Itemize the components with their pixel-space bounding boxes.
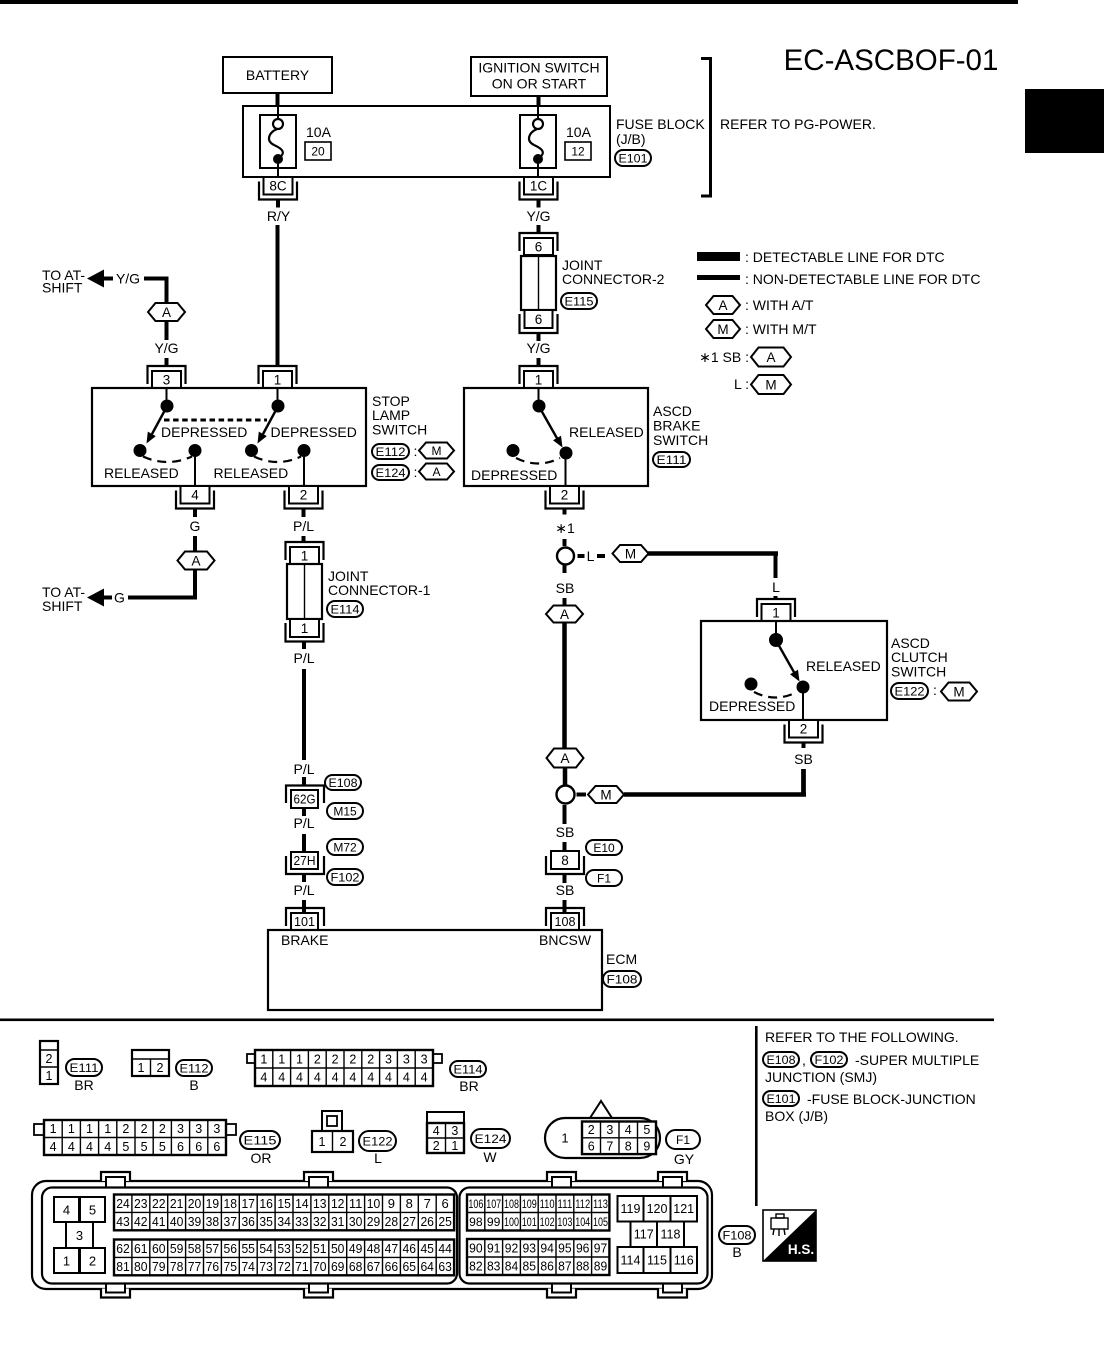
connector ref M72 xyxy=(327,839,363,855)
svg-text:A: A xyxy=(560,607,569,622)
svg-text:116: 116 xyxy=(674,1254,694,1268)
svg-text:108: 108 xyxy=(504,1197,519,1211)
hexagon M (with M/T) xyxy=(613,545,649,562)
ecm connector bottom tab 3 xyxy=(547,1284,576,1298)
svg-text:4: 4 xyxy=(68,1140,75,1154)
svg-text:90: 90 xyxy=(469,1241,483,1256)
connector E115 pinout xyxy=(34,1120,236,1155)
svg-text:3: 3 xyxy=(163,372,171,387)
connector ref E108 note xyxy=(763,1052,806,1068)
legend *1 SB xyxy=(699,348,791,367)
svg-text:2: 2 xyxy=(157,1061,164,1075)
svg-text:M: M xyxy=(717,322,728,337)
connector ref F108 xyxy=(603,971,641,987)
svg-text:BATTERY: BATTERY xyxy=(246,67,310,83)
svg-text:2: 2 xyxy=(46,1052,53,1066)
svg-text:22: 22 xyxy=(152,1196,166,1211)
svg-text:105: 105 xyxy=(593,1215,608,1229)
svg-text:E112: E112 xyxy=(180,1061,209,1075)
svg-text:P/L: P/L xyxy=(293,815,314,831)
svg-text:SHIFT: SHIFT xyxy=(42,280,83,296)
svg-text:30: 30 xyxy=(349,1214,363,1229)
svg-text:4: 4 xyxy=(403,1071,410,1085)
svg-text:4: 4 xyxy=(260,1071,267,1085)
wire ignition to fuse block xyxy=(537,96,541,106)
svg-text::: : xyxy=(414,443,418,459)
connector ref E124 xyxy=(471,1129,510,1148)
wire to at-shift branch xyxy=(144,277,169,304)
joint connector-2 body xyxy=(521,256,556,310)
svg-text:Y/G: Y/G xyxy=(116,271,140,287)
svg-text::: : xyxy=(414,464,418,480)
svg-text:SB: SB xyxy=(556,882,575,898)
svg-text:SWITCH: SWITCH xyxy=(653,432,708,448)
svg-text:3: 3 xyxy=(76,1228,83,1243)
svg-text:2: 2 xyxy=(349,1053,356,1067)
svg-text:FUSE BLOCK: FUSE BLOCK xyxy=(616,116,705,132)
fuse 10A #20 xyxy=(260,106,296,177)
svg-text:3: 3 xyxy=(385,1053,392,1067)
svg-text:2: 2 xyxy=(141,1122,148,1136)
svg-text:G: G xyxy=(190,518,201,534)
svg-text:2: 2 xyxy=(433,1139,440,1153)
ecm pins 114 115 116 xyxy=(618,1247,698,1273)
svg-text:65: 65 xyxy=(403,1259,417,1274)
legend with A/T xyxy=(706,296,814,314)
ascd brake switch contacts xyxy=(507,388,573,486)
svg-text:1: 1 xyxy=(301,621,309,636)
ecm connector bottom tab 4 xyxy=(658,1284,687,1298)
stop lamp switch pin 3 xyxy=(148,366,186,388)
wire to pin 3 xyxy=(165,358,169,366)
svg-text:24: 24 xyxy=(116,1196,130,1211)
ecm pin 108 BNCSW xyxy=(546,908,584,930)
svg-text:101: 101 xyxy=(522,1215,537,1229)
wire SB down xyxy=(801,769,806,793)
connector ref E112 with M/T xyxy=(372,443,454,460)
svg-text:M: M xyxy=(953,684,964,699)
connector ref E111 xyxy=(66,1059,102,1076)
wire to ascd clutch switch xyxy=(648,551,778,578)
svg-text:66: 66 xyxy=(385,1259,399,1274)
svg-text:SWITCH: SWITCH xyxy=(372,422,427,438)
svg-text:E112: E112 xyxy=(376,445,406,459)
svg-text:5: 5 xyxy=(89,1203,96,1218)
wire R/Y to stop lamp switch xyxy=(276,225,280,366)
svg-text:2: 2 xyxy=(332,1053,339,1067)
svg-text:DEPRESSED: DEPRESSED xyxy=(471,467,557,483)
svg-text:35: 35 xyxy=(259,1214,273,1229)
svg-text:108: 108 xyxy=(555,914,576,929)
page edge index tab xyxy=(1025,89,1104,153)
battery box xyxy=(223,57,332,93)
svg-text:109: 109 xyxy=(522,1197,537,1211)
wire from clutch switch xyxy=(624,769,806,797)
svg-text:IGNITION SWITCH: IGNITION SWITCH xyxy=(478,60,599,76)
svg-text:M: M xyxy=(432,444,442,458)
svg-text:Y/G: Y/G xyxy=(526,208,550,224)
connector ref E101 note xyxy=(763,1091,799,1106)
svg-text:L: L xyxy=(772,579,780,595)
connector ref F1 xyxy=(666,1130,700,1149)
H.S. data link mark xyxy=(763,1210,816,1261)
svg-text:43: 43 xyxy=(116,1214,130,1229)
dashed wire *1 xyxy=(563,539,567,546)
svg-text:E108: E108 xyxy=(767,1053,796,1067)
svg-text:L :: L : xyxy=(734,376,749,392)
svg-text:3: 3 xyxy=(195,1122,202,1136)
svg-text:78: 78 xyxy=(170,1259,184,1274)
svg-text:86: 86 xyxy=(540,1259,554,1274)
wire battery to fuse block xyxy=(276,93,280,106)
to at-shift arrow Y/G xyxy=(42,267,113,296)
svg-text:4: 4 xyxy=(349,1071,356,1085)
svg-text:42: 42 xyxy=(134,1214,148,1229)
svg-text:49: 49 xyxy=(349,1241,363,1256)
svg-text:111: 111 xyxy=(557,1197,572,1211)
node circle (splice) xyxy=(557,786,575,804)
svg-text:A: A xyxy=(432,465,440,479)
svg-text:E108: E108 xyxy=(329,776,358,790)
ecm connector top tab 4 xyxy=(658,1172,687,1187)
svg-text:4: 4 xyxy=(367,1071,374,1085)
svg-text:-FUSE BLOCK-JUNCTION: -FUSE BLOCK-JUNCTION xyxy=(807,1091,976,1107)
svg-text:33: 33 xyxy=(295,1214,309,1229)
svg-text:W: W xyxy=(483,1149,497,1165)
page top bar xyxy=(0,0,1018,4)
connector E112 pinout xyxy=(132,1050,169,1076)
node circle (splice) xyxy=(557,548,574,565)
connector E124 pinout xyxy=(427,1112,464,1153)
svg-text:89: 89 xyxy=(594,1259,608,1274)
svg-text:61: 61 xyxy=(134,1241,148,1256)
ecm pin grid 24-6 / 43-25 xyxy=(114,1195,454,1231)
svg-text:103: 103 xyxy=(557,1215,572,1229)
svg-text:101: 101 xyxy=(294,914,315,929)
svg-text:120: 120 xyxy=(647,1202,668,1216)
svg-text:94: 94 xyxy=(540,1241,554,1256)
svg-text:104: 104 xyxy=(575,1215,590,1229)
svg-text:M72: M72 xyxy=(333,840,357,854)
ascd clutch switch pin 2 xyxy=(785,720,823,748)
ecm connector top tab 2 xyxy=(304,1172,333,1187)
svg-text:48: 48 xyxy=(367,1241,381,1256)
svg-text:6: 6 xyxy=(213,1140,220,1154)
connector ref F108 xyxy=(719,1226,755,1244)
svg-text:DEPRESSED: DEPRESSED xyxy=(161,424,247,440)
svg-text:2: 2 xyxy=(367,1053,374,1067)
ignition switch box xyxy=(471,57,607,96)
svg-text:31: 31 xyxy=(331,1214,345,1229)
svg-text:,: , xyxy=(802,1052,806,1068)
ecm connector bottom tab 1 xyxy=(101,1284,130,1298)
svg-text:R/Y: R/Y xyxy=(267,208,291,224)
svg-text:2: 2 xyxy=(314,1053,321,1067)
svg-text:2: 2 xyxy=(800,722,808,737)
to at-shift arrow G xyxy=(42,584,112,614)
svg-text:21: 21 xyxy=(170,1196,184,1211)
svg-text:6: 6 xyxy=(588,1140,595,1154)
dash below node xyxy=(563,565,567,573)
fuse block box E101 xyxy=(243,106,610,177)
svg-text:2: 2 xyxy=(300,488,308,503)
svg-text:1: 1 xyxy=(63,1254,70,1269)
svg-text:BNCSW: BNCSW xyxy=(539,932,592,948)
svg-text:4: 4 xyxy=(86,1140,93,1154)
svg-text:8: 8 xyxy=(406,1196,413,1211)
svg-text:E115: E115 xyxy=(244,1133,277,1147)
svg-text:70: 70 xyxy=(313,1259,327,1274)
connector 8C xyxy=(259,177,297,208)
svg-text:B: B xyxy=(732,1244,741,1260)
connector ref E112 xyxy=(176,1060,212,1076)
svg-text:1: 1 xyxy=(301,548,309,563)
svg-text:F1: F1 xyxy=(676,1133,690,1147)
wire SB to ECM xyxy=(563,900,567,913)
wire SB xyxy=(563,842,567,851)
svg-text:14: 14 xyxy=(295,1196,309,1211)
ecm connector right panel xyxy=(460,1188,708,1284)
stop lamp switch box xyxy=(92,388,366,486)
svg-text:4: 4 xyxy=(104,1140,111,1154)
svg-text:3: 3 xyxy=(606,1123,613,1137)
svg-text:L: L xyxy=(587,548,595,564)
svg-text:9: 9 xyxy=(643,1140,650,1154)
svg-text:83: 83 xyxy=(487,1259,501,1274)
svg-text:JUNCTION (SMJ): JUNCTION (SMJ) xyxy=(765,1069,877,1085)
svg-text:RELEASED: RELEASED xyxy=(214,465,289,481)
svg-text:3: 3 xyxy=(213,1122,220,1136)
svg-text:REFER TO THE FOLLOWING.: REFER TO THE FOLLOWING. xyxy=(765,1029,959,1045)
svg-text:29: 29 xyxy=(367,1214,381,1229)
svg-text::: : xyxy=(933,682,937,698)
label FUSE BLOCK-JUNCTION BOX xyxy=(765,1091,976,1124)
svg-text:118: 118 xyxy=(661,1228,681,1242)
ascd brake switch pin 2 xyxy=(546,486,584,515)
svg-text:1: 1 xyxy=(278,1053,285,1067)
svg-text:110: 110 xyxy=(540,1197,555,1211)
svg-text:3: 3 xyxy=(451,1124,458,1138)
svg-text:P/L: P/L xyxy=(293,518,314,534)
fuse 10A #12 xyxy=(520,106,556,177)
svg-text:F102: F102 xyxy=(815,1053,844,1067)
svg-text:36: 36 xyxy=(241,1214,255,1229)
connector E122 pinout xyxy=(312,1111,353,1152)
ecm connector left panel xyxy=(42,1188,457,1284)
svg-text:121: 121 xyxy=(673,1202,694,1216)
fuse 2 value 10A 12 xyxy=(565,124,592,160)
connector ref F102 xyxy=(327,869,363,885)
svg-text:12: 12 xyxy=(331,1196,345,1211)
svg-text:73: 73 xyxy=(259,1259,273,1274)
svg-text:F102: F102 xyxy=(331,870,360,884)
svg-text:1: 1 xyxy=(451,1139,458,1153)
legend with M/T xyxy=(706,320,817,338)
svg-text:: DETECTABLE LINE FOR DTC: : DETECTABLE LINE FOR DTC xyxy=(745,249,945,265)
svg-text:F108: F108 xyxy=(723,1228,752,1242)
ecm pin grid 62-44 / 81-63 xyxy=(114,1240,454,1276)
svg-text:P/L: P/L xyxy=(293,761,314,777)
label JOINT CONNECTOR-1 xyxy=(328,568,431,598)
ascd clutch switch box xyxy=(701,621,887,720)
svg-text:112: 112 xyxy=(575,1197,590,1211)
ecm connector top tab 1 xyxy=(101,1172,130,1187)
wire G to hexagon xyxy=(193,536,197,551)
hexagon A (with A/T) xyxy=(178,552,215,570)
svg-text:87: 87 xyxy=(558,1259,572,1274)
svg-text:4: 4 xyxy=(296,1071,303,1085)
svg-text:BR: BR xyxy=(74,1077,93,1093)
svg-text:91: 91 xyxy=(487,1241,501,1256)
wire to hexagon A xyxy=(563,598,567,606)
svg-text:6: 6 xyxy=(195,1140,202,1154)
svg-text:64: 64 xyxy=(420,1259,434,1274)
svg-text:85: 85 xyxy=(523,1259,537,1274)
svg-text:2: 2 xyxy=(122,1122,129,1136)
svg-text:75: 75 xyxy=(224,1259,238,1274)
svg-text:10: 10 xyxy=(367,1196,381,1211)
svg-text:98: 98 xyxy=(469,1215,483,1229)
dash to hexagon M xyxy=(577,793,587,797)
svg-text:4: 4 xyxy=(332,1071,339,1085)
connector ref F102 note xyxy=(811,1052,847,1067)
connector ref E111 xyxy=(653,452,690,467)
svg-text:51: 51 xyxy=(313,1241,327,1256)
svg-text:BR: BR xyxy=(459,1078,478,1094)
joint connector-1 body xyxy=(287,564,322,619)
svg-text:8: 8 xyxy=(561,853,569,868)
connector ref E115 xyxy=(561,293,597,309)
svg-text:68: 68 xyxy=(349,1259,363,1274)
svg-text:E114: E114 xyxy=(331,602,360,616)
svg-text:17: 17 xyxy=(241,1196,255,1211)
svg-text:1: 1 xyxy=(535,372,543,387)
svg-text:52: 52 xyxy=(295,1241,309,1256)
svg-text:19: 19 xyxy=(206,1196,220,1211)
dash to L xyxy=(578,554,585,558)
svg-text:Y/G: Y/G xyxy=(526,340,550,356)
svg-text:115: 115 xyxy=(647,1254,667,1268)
hexagon A (with A/T) xyxy=(148,303,185,321)
svg-text:92: 92 xyxy=(505,1241,519,1256)
svg-text:2: 2 xyxy=(588,1123,595,1137)
hexagon A (with A/T) xyxy=(546,606,583,623)
wire hexagon to node xyxy=(563,768,568,786)
label JOINT CONNECTOR-2 xyxy=(562,257,665,287)
svg-text:9: 9 xyxy=(388,1196,395,1211)
svg-text:4: 4 xyxy=(433,1124,440,1138)
wire L xyxy=(774,596,778,599)
joint connector-1 pin 1 top xyxy=(286,542,324,564)
hexagon M (with M/T) xyxy=(588,786,624,803)
ascd brake switch box xyxy=(464,388,648,486)
connector ref E114 xyxy=(327,601,363,617)
svg-text:88: 88 xyxy=(576,1259,590,1274)
svg-text:96: 96 xyxy=(576,1241,590,1256)
svg-text:∗1 SB :: ∗1 SB : xyxy=(699,349,749,365)
bracket refer pg-power xyxy=(701,59,711,197)
svg-text:72: 72 xyxy=(277,1259,291,1274)
label STOP LAMP SWITCH xyxy=(372,393,427,438)
label ASCD BRAKE SWITCH xyxy=(653,403,708,448)
connector E111 pinout xyxy=(40,1041,58,1084)
svg-text:∗1: ∗1 xyxy=(555,520,575,536)
svg-text:3: 3 xyxy=(403,1053,410,1067)
ecm box xyxy=(268,930,602,1010)
svg-text:6: 6 xyxy=(535,312,543,327)
svg-text:12: 12 xyxy=(571,145,585,159)
label ASCD CLUTCH SWITCH xyxy=(891,635,948,680)
svg-text:: WITH M/T: : WITH M/T xyxy=(745,321,817,337)
svg-text:10A: 10A xyxy=(566,124,592,140)
svg-text:63: 63 xyxy=(438,1259,452,1274)
svg-text:82: 82 xyxy=(469,1259,483,1274)
svg-text:69: 69 xyxy=(331,1259,345,1274)
connector E114 pinout xyxy=(247,1050,442,1086)
svg-text:A: A xyxy=(162,305,171,320)
wire below node xyxy=(563,805,567,824)
svg-text:RELEASED: RELEASED xyxy=(806,658,881,674)
dash to hexagon xyxy=(597,554,605,558)
svg-text:38: 38 xyxy=(206,1214,220,1229)
connector F1 pinout xyxy=(545,1101,660,1158)
svg-text:62G: 62G xyxy=(294,792,316,807)
ecm pin 101 BRAKE xyxy=(286,908,324,930)
svg-text:16: 16 xyxy=(259,1196,273,1211)
connector ref M15 xyxy=(327,803,363,819)
svg-text:46: 46 xyxy=(403,1241,417,1256)
svg-text:P/L: P/L xyxy=(293,650,314,666)
svg-text:5: 5 xyxy=(122,1140,129,1154)
svg-text:E114: E114 xyxy=(454,1062,483,1076)
ecm connector bottom tab 2 xyxy=(304,1284,333,1298)
svg-text:32: 32 xyxy=(313,1214,327,1229)
connector ref E10 xyxy=(586,840,622,855)
svg-text:107: 107 xyxy=(486,1197,501,1211)
svg-text:1: 1 xyxy=(260,1053,267,1067)
svg-text:114: 114 xyxy=(621,1254,641,1268)
svg-text:95: 95 xyxy=(558,1241,572,1256)
svg-text:5: 5 xyxy=(141,1140,148,1154)
svg-text:4: 4 xyxy=(385,1071,392,1085)
svg-text:M15: M15 xyxy=(333,804,357,818)
svg-text:97: 97 xyxy=(594,1241,608,1256)
svg-text:A: A xyxy=(766,350,775,365)
svg-text:SB: SB xyxy=(556,580,575,596)
svg-text:B: B xyxy=(189,1077,198,1093)
ascd brake switch pin 1 xyxy=(520,366,558,388)
svg-text:20: 20 xyxy=(311,145,325,159)
label FUSE BLOCK (J/B) xyxy=(616,116,705,147)
svg-text:A: A xyxy=(560,751,569,766)
svg-text:1: 1 xyxy=(561,1131,568,1146)
ascd clutch switch pin 1 xyxy=(757,599,795,621)
wire P/L trunk xyxy=(302,669,306,760)
svg-text:54: 54 xyxy=(259,1241,273,1256)
svg-text:1: 1 xyxy=(46,1069,53,1083)
svg-text:3: 3 xyxy=(421,1053,428,1067)
ecm pin grid 90-97 / 82-89 xyxy=(467,1239,609,1275)
svg-text:23: 23 xyxy=(134,1196,148,1211)
svg-text:59: 59 xyxy=(170,1241,184,1256)
svg-text:4: 4 xyxy=(50,1140,57,1154)
svg-text:40: 40 xyxy=(170,1214,184,1229)
wire P/L to ECM xyxy=(302,900,306,913)
connector 8 xyxy=(546,851,584,883)
svg-text:A: A xyxy=(191,553,200,568)
wire Y/G to joint connector-2 xyxy=(537,225,541,233)
svg-text:E115: E115 xyxy=(565,294,594,308)
